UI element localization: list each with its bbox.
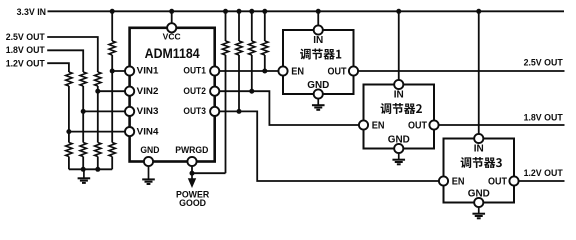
- pin VIN1: [125, 66, 134, 75]
- pin IN (regulator 2): [394, 80, 403, 89]
- wire 3.3V divider mid: [111, 55, 113, 143]
- node 3.3V rail / VCC: [169, 9, 174, 14]
- pin IN (regulator 1): [314, 25, 323, 34]
- wire OUT2 to EN2: [215, 91, 364, 125]
- svg-text:1.2V OUT: 1.2V OUT: [524, 168, 564, 178]
- svg-text:VCC: VCC: [163, 33, 181, 42]
- svg-text:PWRGD: PWRGD: [175, 145, 208, 155]
- svg-text:EN: EN: [452, 177, 465, 188]
- svg-text:ADM1184: ADM1184: [145, 46, 200, 61]
- node 3.3V rail / pullup 1: [223, 9, 228, 14]
- pin EN (regulator 3): [439, 176, 448, 185]
- pin OUT2: [210, 87, 219, 96]
- svg-text:1.2V OUT: 1.2V OUT: [6, 58, 46, 68]
- wire pullup R5 top: [225, 11, 227, 41]
- wire divider ground rail: [69, 168, 112, 170]
- svg-text:2.5V OUT: 2.5V OUT: [6, 32, 46, 42]
- node 3.3V rail / IN2: [396, 9, 401, 14]
- svg-text:IN: IN: [394, 89, 404, 100]
- svg-text:GND: GND: [140, 145, 159, 155]
- wire OUT1 to EN1: [215, 70, 283, 72]
- pin OUT (regulator 2): [429, 120, 438, 129]
- node OUT1 / pullup: [262, 69, 267, 74]
- op-amp U1 ADM1184 supervisor IC body: [130, 28, 215, 162]
- node OUT3 / pullup: [237, 109, 242, 114]
- pin PWRGD: [187, 157, 196, 166]
- wire pullup R7 bottom to OUT2: [251, 55, 253, 91]
- svg-text:IN: IN: [474, 143, 484, 154]
- wire pullup R7 top: [251, 11, 253, 41]
- label 调节器2: [381, 103, 422, 114]
- node VIN1 tap: [110, 69, 115, 74]
- wire divider bottom 3: [97, 157, 99, 170]
- node 3.3V rail / pullup 2: [237, 9, 242, 14]
- resistor pullup R6 (OUT3): [236, 41, 242, 55]
- node 3.3V rail / divider R1: [110, 9, 115, 14]
- wire pullup R8 top: [264, 11, 266, 41]
- wire VIN2 tap: [98, 90, 130, 92]
- wire 2.5V OUT sense entry: [47, 37, 98, 72]
- wire 3.3V rail: [48, 10, 565, 12]
- resistor pullup R5 (PWRGD): [222, 41, 228, 55]
- ground regulator 3: [472, 207, 485, 218]
- node ground rail / 1.8V divider: [81, 167, 86, 172]
- ground ADM1184 GND: [142, 166, 155, 184]
- resistor divider R3 bottom: [80, 143, 86, 157]
- pin OUT (regulator 1): [349, 66, 358, 75]
- pin IN (regulator 3): [474, 134, 483, 143]
- svg-text:1.8V OUT: 1.8V OUT: [6, 45, 46, 55]
- svg-text:3.3V IN: 3.3V IN: [17, 7, 46, 17]
- node OUT2 / pullup: [249, 89, 254, 94]
- node VIN2 tap: [95, 89, 100, 94]
- wire divider bottom 4: [111, 157, 113, 170]
- resistor divider R2 bottom: [95, 143, 101, 157]
- wire pullup R6 bottom to OUT3: [238, 55, 240, 111]
- wire 1.8V divider mid: [82, 86, 84, 143]
- wire pullup R6 top: [238, 11, 240, 41]
- resistor divider R1 bottom: [109, 143, 115, 157]
- svg-text:OUT2: OUT2: [183, 86, 206, 96]
- pin VIN4: [125, 127, 134, 136]
- pin EN (regulator 2): [359, 120, 368, 129]
- pin OUT1: [210, 66, 219, 75]
- resistor divider R3 top (1.8V): [80, 72, 86, 86]
- node 3.3V rail / pullup 3: [249, 9, 254, 14]
- wire 2.5V divider mid: [97, 86, 99, 143]
- wire 2.5V OUT rail: [354, 70, 565, 72]
- wire PWRGD to pullup: [192, 172, 226, 174]
- wire 1.2V divider mid: [68, 86, 70, 143]
- pin GND (regulator 3): [474, 198, 483, 207]
- regulator U4 调节器3 body: [444, 139, 515, 203]
- wire PWRGD down: [191, 162, 193, 174]
- node 3.3V rail / pullup 4: [262, 9, 267, 14]
- arrow POWER GOOD: [191, 173, 193, 180]
- node PWRGD / pullup / POWER GOOD: [190, 171, 195, 176]
- resistor pullup R7 (OUT2): [249, 41, 255, 55]
- node VIN4 tap: [66, 129, 71, 134]
- node VIN3 tap: [81, 109, 86, 114]
- label 调节器3: [461, 157, 502, 168]
- wire VIN3 tap: [83, 110, 129, 112]
- svg-text:OUT: OUT: [408, 121, 428, 132]
- wire IN3 feed: [478, 11, 480, 138]
- ground regulator 1: [312, 99, 325, 110]
- svg-text:VIN2: VIN2: [137, 86, 159, 96]
- pin VIN3: [125, 107, 134, 116]
- svg-text:EN: EN: [291, 67, 304, 78]
- svg-text:OUT3: OUT3: [183, 106, 206, 116]
- regulator U2 调节器1 body: [283, 30, 354, 94]
- wire pullup R5 bottom to PWRGD net: [225, 55, 227, 173]
- resistor divider R1 top (3.3V): [109, 41, 115, 55]
- wire OUT3 to EN3: [215, 111, 444, 181]
- svg-text:VIN3: VIN3: [137, 106, 159, 116]
- svg-text:IN: IN: [313, 35, 323, 46]
- wire 1.2V OUT sense entry: [47, 63, 69, 72]
- resistor divider R2 top (2.5V): [95, 72, 101, 86]
- resistor divider R4 top (1.2V): [66, 72, 72, 86]
- svg-text:OUT: OUT: [328, 67, 348, 78]
- pin GND (regulator 1): [314, 89, 323, 98]
- wire 1.8V OUT sense entry: [47, 50, 83, 72]
- svg-text:OUT: OUT: [488, 177, 508, 188]
- pin VCC: [167, 23, 176, 32]
- wire VIN4 tap: [69, 131, 130, 133]
- pin EN (regulator 1): [278, 66, 287, 75]
- wire IN2 feed: [398, 11, 400, 84]
- pin GND: [144, 157, 153, 166]
- resistor pullup R8 (OUT1): [262, 41, 268, 55]
- ground regulator 2: [392, 153, 405, 164]
- pin GND (regulator 2): [394, 144, 403, 153]
- node 3.3V rail / IN1: [316, 9, 321, 14]
- wire 1.8V OUT rail: [434, 124, 565, 126]
- svg-text:OUT1: OUT1: [183, 66, 206, 76]
- svg-text:1.8V OUT: 1.8V OUT: [524, 113, 564, 123]
- node 3.3V rail / IN3: [476, 9, 481, 14]
- pin VIN2: [125, 87, 134, 96]
- wire 1.2V OUT rail: [514, 180, 565, 182]
- svg-text:VIN1: VIN1: [137, 66, 159, 76]
- label 调节器1: [300, 48, 341, 59]
- pin OUT (regulator 3): [509, 176, 518, 185]
- pin OUT3: [210, 107, 219, 116]
- wire pullup R8 bottom to OUT1: [264, 55, 266, 71]
- svg-text:VIN4: VIN4: [137, 126, 159, 136]
- resistor divider R4 bottom: [66, 143, 72, 157]
- wire 3.3V divider top: [111, 11, 113, 41]
- ground divider: [78, 169, 91, 183]
- wire divider bottom 1: [68, 157, 70, 170]
- node ground rail / 2.5V divider: [95, 167, 100, 172]
- wire divider bottom 2: [82, 157, 84, 170]
- wire VCC feed: [171, 11, 173, 28]
- regulator U3 调节器2 body: [364, 85, 435, 149]
- svg-text:GOOD: GOOD: [179, 198, 206, 208]
- wire IN1 feed: [317, 11, 319, 30]
- svg-text:2.5V OUT: 2.5V OUT: [524, 58, 564, 68]
- wire VIN1 tap: [112, 70, 129, 72]
- svg-text:EN: EN: [372, 121, 385, 132]
